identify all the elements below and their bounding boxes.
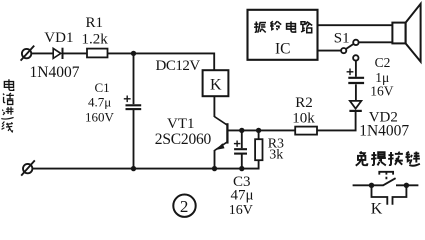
wire: terminal T1 to VD1 anode (31, 52, 53, 54)
C2 polarity + (347, 69, 354, 76)
svg-text:S1: S1 (334, 30, 350, 46)
label 话 (3, 93, 14, 104)
wire: R1 to corner, top rail (108, 53, 215, 70)
node: base / C3 (239, 128, 244, 133)
svg-text:1N4007: 1N4007 (359, 122, 409, 139)
node: junction top rail / C1 (131, 51, 136, 56)
svg-text:VD1: VD1 (44, 30, 73, 46)
C1 polarity + (124, 96, 131, 103)
svg-text:IC: IC (275, 41, 291, 58)
pushbutton K (hands-free) (353, 172, 419, 205)
resistor R2 (295, 127, 317, 135)
svg-text:16V: 16V (229, 203, 253, 218)
wire: VD2 anode to C2 (355, 84, 357, 100)
wire: K box to VT1 collector (213, 96, 215, 117)
wire: bottom rail (32, 160, 258, 168)
node: C3 / bottom rail (239, 166, 244, 171)
svg-text:R2: R2 (295, 95, 313, 111)
wire: VT1 emitter to bottom rail (214, 150, 216, 169)
IC box (ringer circuit) (248, 10, 318, 60)
terminal T1 (top telephone line) (21, 46, 35, 61)
node: emitter / bottom rail (212, 166, 217, 171)
transistor VT1 (214, 117, 227, 151)
svg-text:1.2k: 1.2k (82, 32, 109, 48)
svg-text:K: K (210, 76, 222, 93)
wire: C3 to bottom rail (241, 154, 243, 168)
label 提 (371, 152, 386, 165)
label 按 (388, 152, 403, 165)
svg-text:K: K (371, 200, 383, 217)
wire: IC to speaker top (318, 24, 392, 26)
label 电 (ringer) (287, 21, 296, 32)
capacitor C2 (348, 78, 364, 83)
wire: VD1 cathode to R1 (63, 52, 87, 54)
svg-text:C2: C2 (375, 55, 391, 70)
speaker B (392, 4, 420, 62)
diode VD2 (349, 101, 361, 111)
relay coil K box (203, 70, 229, 96)
switch S1 (341, 40, 358, 61)
svg-text:VT1: VT1 (167, 116, 195, 132)
capacitor C3 (234, 149, 247, 153)
svg-text:10k: 10k (292, 111, 315, 127)
svg-text:47μ: 47μ (231, 188, 254, 204)
label 振 (ringer circuit) (254, 22, 266, 33)
wire: R2 to VD2 cathode (317, 112, 356, 131)
wire: C3 stem top (241, 130, 243, 148)
label 铃 (270, 21, 281, 30)
label 进 (1, 107, 13, 119)
svg-text:1N4007: 1N4007 (30, 64, 80, 81)
capacitor C1 (126, 105, 142, 109)
wire: R3 stem top (258, 130, 260, 139)
svg-text:2: 2 (180, 197, 189, 216)
wire: IC to S1 pole (318, 50, 342, 52)
svg-text:C1: C1 (95, 80, 110, 95)
svg-text:DC12V: DC12V (156, 58, 201, 74)
node: base / R3 (256, 128, 261, 133)
label 线 (2, 122, 13, 132)
node: C1 / bottom rail (131, 166, 136, 171)
C3 polarity + (234, 141, 241, 147)
figure number circle 2 (173, 195, 195, 217)
diode VD1 (53, 48, 62, 59)
label 免 (hands-free key) (356, 152, 368, 166)
resistor R1 (87, 49, 108, 58)
svg-text:2SC2060: 2SC2060 (155, 131, 212, 148)
svg-text:R1: R1 (86, 15, 104, 31)
svg-text:160V: 160V (85, 110, 115, 125)
wire: C1 to bottom rail (133, 110, 135, 169)
label 电 (telephone line col) (4, 79, 13, 90)
svg-text:4.7μ: 4.7μ (88, 94, 111, 109)
label 路 (301, 22, 312, 33)
wire: S1 upper contact to speaker (359, 41, 392, 43)
resistor R3 (255, 139, 262, 160)
svg-text:16V: 16V (370, 83, 394, 98)
label 键 (405, 152, 419, 166)
svg-text:3k: 3k (269, 148, 283, 163)
wire: VT1 base line to R2 (228, 129, 295, 131)
wire: C2 to S1 lower contact (355, 61, 357, 77)
wire: junction down to C1 (133, 53, 135, 104)
terminal T2 (bottom telephone line) (21, 160, 35, 175)
